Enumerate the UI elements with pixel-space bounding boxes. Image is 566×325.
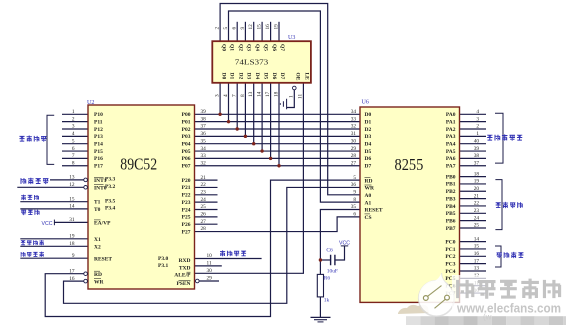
bracket PB status indication [495,180,502,230]
wire node to R6 top [319,260,321,274]
svg-text:D6: D6 [271,73,277,80]
watermark elecfans logo circle [419,281,455,317]
svg-text:D2: D2 [365,127,372,133]
wire TXD pin11 [195,265,222,267]
svg-text:A1: A1 [365,200,372,206]
IC U3 74LS373 body [212,35,311,83]
svg-text:RD: RD [365,178,373,184]
svg-text:R6: R6 [324,276,331,282]
wire INT1 pin13 [50,179,84,181]
svg-text:13: 13 [474,266,480,272]
svg-text:P17: P17 [94,164,103,170]
svg-text:28: 28 [201,226,207,232]
svg-text:PB5: PB5 [446,211,456,217]
svg-text:PC0: PC0 [445,239,455,245]
svg-text:31: 31 [69,217,75,223]
svg-text:38: 38 [201,116,207,122]
svg-text:PC3: PC3 [445,261,455,267]
svg-text:36: 36 [201,131,207,137]
svg-text:14: 14 [257,91,263,97]
svg-text:D5: D5 [365,149,372,155]
bracket PA digit display [495,113,503,163]
89C52 ALE/P pin 30, PSEN pin 29 [174,268,212,287]
svg-text:15: 15 [69,196,75,202]
svg-text:D6: D6 [365,156,372,162]
svg-text:7: 7 [72,153,75,159]
wire T0 pin14 [20,208,88,210]
svg-text:8: 8 [72,160,75,166]
svg-text:D0: D0 [365,112,372,118]
svg-text:Q7: Q7 [279,44,285,51]
wire 8255 RESET pin35 to RC node [320,210,360,261]
IC U6 8255 body [360,100,460,303]
89C52 P0.0-P0.7 pins 39-32 [182,109,207,170]
svg-text:Q4: Q4 [254,44,260,51]
svg-text:5: 5 [353,175,356,181]
svg-text:36: 36 [351,182,357,188]
8255 WR pin 36 [351,182,375,192]
watermark text dianzifashaoyou (elecfans) [458,279,561,299]
74LS373 D0-D7 labels [220,73,309,81]
wire 74LS373 Q4 stub [253,22,255,41]
wire RD: 89C52 pin17 to 8255 RD pin5 [45,180,360,316]
wire PA0-PA7 pins [460,113,487,115]
svg-text:35: 35 [351,204,357,210]
label shumaguan xianshi (digit display) [487,134,522,140]
svg-text:38: 38 [474,153,480,159]
svg-text:TXD: TXD [179,265,191,271]
svg-text:D3: D3 [246,73,252,80]
svg-text:PC2: PC2 [445,254,455,260]
wire P03 bus 89C52 P0.3 to 8255 D3 [195,135,361,137]
svg-text:5: 5 [223,27,229,30]
svg-text:8: 8 [240,94,246,97]
wire P00 bus 89C52 P0.0 to 8255 D0 [195,113,361,115]
wire P2.7 pin28 to 8255 CS pin6 [195,217,361,232]
junction dots latch outputs on P0 bus [218,113,280,168]
svg-text:24: 24 [474,215,480,221]
svg-text:11: 11 [207,261,212,267]
89C52 INT1/INT0 pins 13,12 [69,175,115,192]
wire 74LS373 Q3 stub [244,22,246,41]
svg-text:Q1: Q1 [229,44,235,51]
svg-text:2: 2 [215,27,221,30]
svg-text:U2: U2 [87,100,94,106]
svg-text:21: 21 [201,175,207,181]
wire 74LS373 D3 drop to bus row 3 [244,83,246,137]
svg-text:PA0: PA0 [446,112,456,118]
wire 74LS373 Q6 stub [270,22,272,41]
svg-text:X1: X1 [94,237,101,243]
svg-text:1: 1 [288,95,294,98]
svg-text:20: 20 [474,186,480,192]
svg-text:X2: X2 [94,245,101,251]
bracket PC motor drive [495,246,501,267]
svg-text:P26: P26 [182,222,191,228]
svg-text:RD: RD [94,272,102,278]
svg-text:RXD: RXD [179,258,191,264]
svg-text:P10: P10 [94,112,103,118]
svg-text:P03: P03 [182,134,191,140]
wire 74LS373 D6 drop to bus row 6 [270,83,272,159]
svg-text:18: 18 [69,241,75,247]
svg-text:P02: P02 [182,127,191,133]
label dianji qudong (motor drive) [497,252,524,258]
svg-text:PB3: PB3 [446,196,456,202]
svg-text:P25: P25 [182,215,191,221]
wire 74LS373 Q1 to 8255 A1 [229,11,361,202]
svg-text:21: 21 [474,193,480,199]
89C52 RXD/TXD pins 10,11 [158,253,212,271]
svg-text:25: 25 [201,204,207,210]
svg-text:D1: D1 [365,119,372,125]
wire 74LS373 OE to ground [287,90,294,108]
svg-text:8: 8 [353,197,356,203]
svg-text:3: 3 [476,116,479,122]
74LS373 top pin numbers [215,24,280,30]
wire EA/VP pin31 from VCC [54,221,88,223]
svg-text:23: 23 [474,208,480,214]
89C52 P2.0-P2.7 pins 21-28 [182,175,207,236]
wire P07 bus 89C52 P0.7 to 8255 D7 [195,165,361,167]
svg-text:1k: 1k [324,298,330,304]
8255 PA0-PA7 pins [446,109,480,170]
svg-text:18: 18 [274,91,280,97]
svg-text:P23: P23 [182,200,191,206]
svg-text:18: 18 [474,171,480,177]
svg-text:8255: 8255 [395,155,424,174]
svg-text:13: 13 [69,175,75,181]
svg-text:32: 32 [201,160,207,166]
svg-text:16: 16 [474,251,480,257]
svg-text:P3.0: P3.0 [158,256,168,262]
wire X2 pin18 [20,245,88,247]
wire WR: 89C52 pin16 to 8255 WR pin36 [64,187,361,303]
svg-text:19: 19 [69,234,75,240]
svg-text:14: 14 [474,236,480,242]
svg-text:OE: OE [295,73,301,81]
svg-text:PA1: PA1 [446,119,456,125]
svg-text:P3.3: P3.3 [105,176,115,182]
svg-text:D7: D7 [279,73,285,80]
svg-text:3: 3 [72,124,75,130]
svg-text:23: 23 [201,190,207,196]
svg-text:19: 19 [274,24,280,30]
svg-text:33: 33 [351,116,357,122]
VCC power symbol at EA/VP [42,220,55,227]
label xiaxianwei (lower limit) [21,195,39,200]
89C52 T1/T0 pins 15,14 [69,196,115,213]
8255 CS pin 6 [353,212,371,222]
wire P01 bus 89C52 P0.1 to 8255 D1 [195,121,361,123]
svg-text:24: 24 [201,197,207,203]
wire C6 right plate to VCC stem [335,246,345,260]
svg-text:P22: P22 [182,193,191,199]
svg-text:34: 34 [201,146,207,152]
89C52 pins 1-8 P1.0-P1.7 labels [72,109,103,170]
svg-text:Q5: Q5 [262,44,268,51]
svg-text:2: 2 [476,124,479,130]
svg-text:17: 17 [474,258,480,264]
svg-text:P21: P21 [182,185,191,191]
wire P02 bus 89C52 P0.2 to 8255 D2 [195,128,361,130]
svg-text:PB4: PB4 [446,204,456,210]
svg-text:16: 16 [69,276,75,282]
svg-text:P13: P13 [94,134,103,140]
ground below R6 [311,317,331,322]
watermark cloud puff [398,305,429,314]
logo pad 1 [423,296,428,301]
junction node RC reset [319,258,322,261]
svg-text:LE: LE [304,73,310,81]
svg-text:22: 22 [474,201,480,207]
svg-text:10: 10 [207,253,213,259]
89C52 RESET pin 9 [72,253,113,263]
74LS373 bottom pin numbers [215,91,304,99]
svg-text:D1: D1 [229,73,235,80]
8255 D0-D7 pins 34-27 [351,109,372,170]
svg-text:ALE/P: ALE/P [174,273,191,279]
label zhuangtai zhishi (status indication) [496,202,523,208]
svg-text:PA5: PA5 [446,149,456,155]
svg-text:25: 25 [474,223,480,229]
svg-text:Q3: Q3 [246,44,252,51]
logo pad 2 [445,295,450,300]
svg-text:C6: C6 [326,248,333,254]
svg-text:D4: D4 [254,73,260,80]
svg-text:T1: T1 [94,200,101,206]
wire P1.0-P1.7 input pins 1-8 [62,113,88,115]
svg-text:17: 17 [69,268,75,274]
svg-text:19: 19 [474,179,480,185]
svg-text:P07: P07 [182,164,191,170]
svg-text:EA/VP: EA/VP [94,221,111,227]
svg-text:PB7: PB7 [446,226,456,232]
svg-text:PSEN: PSEN [176,281,190,287]
svg-text:D7: D7 [365,164,372,170]
svg-text:12: 12 [248,24,254,30]
wire 74LS373 D5 drop to bus row 5 [261,83,263,151]
svg-text:D2: D2 [237,73,243,80]
svg-text:Q2: Q2 [237,44,243,51]
watermark text halo [452,275,566,316]
89C52 RD/WR pins 17,16 [69,268,104,285]
svg-text:P04: P04 [182,142,191,148]
svg-text:P14: P14 [94,142,103,148]
74LS373 OE bubble [293,86,297,90]
svg-text:A0: A0 [365,193,372,199]
svg-text:2: 2 [72,116,75,122]
svg-text:11: 11 [298,94,304,99]
svg-text:P3.5: P3.5 [105,198,115,204]
svg-text:27: 27 [201,219,207,225]
8255 PB0-PB7 pins [446,171,480,232]
svg-text:P3.2: P3.2 [105,184,115,190]
svg-text:P12: P12 [94,127,103,133]
svg-text:P15: P15 [94,149,103,155]
wire 74LS373 D7 drop to bus row 7 [278,83,280,166]
svg-text:D0: D0 [220,73,226,80]
svg-text:7: 7 [232,94,238,97]
svg-text:29: 29 [207,276,213,282]
svg-text:P27: P27 [182,229,191,235]
svg-text:U3: U3 [288,35,295,41]
svg-text:Q6: Q6 [271,44,277,51]
svg-text:14: 14 [69,204,75,210]
svg-text:(w: (w [483,313,492,322]
svg-text:P3.4: P3.4 [105,206,115,212]
svg-text:www.elecfans.com: www.elecfans.com [456,302,561,316]
wire 74LS373 D4 drop to bus row 4 [253,83,255,144]
wire RESET pin9 [20,257,88,259]
svg-text:37: 37 [474,160,480,166]
label fuwei xinhao (reset signal) [21,252,44,257]
svg-text:29: 29 [351,146,357,152]
svg-text:6: 6 [353,212,356,218]
wire 74LS373 LE to 89C52 ALE [195,83,304,273]
svg-text:15: 15 [474,244,480,250]
wire 74LS373 Q0 to 8255 A0 [220,4,360,195]
wire PC0-PC7 pins [460,241,487,243]
svg-text:PB0: PB0 [446,174,456,180]
svg-text:13: 13 [248,91,254,97]
label shangxianwei (upper limit) [21,210,39,215]
svg-text:P06: P06 [182,156,191,162]
svg-text:PC1: PC1 [445,247,455,253]
wire node to C6 left plate [320,259,330,261]
wire 74LS373 D2 drop to bus row 2 [236,83,238,129]
svg-text:9: 9 [72,253,75,259]
wire RXD pin10 [195,258,262,260]
capacitor C6 10uF [326,248,337,275]
svg-text:6: 6 [72,146,75,152]
8255 RESET pin 35 [351,204,383,214]
svg-text:PA2: PA2 [446,127,456,133]
svg-text:40: 40 [474,138,480,144]
svg-text:28: 28 [351,153,357,159]
VCC power symbol at C6 [339,241,350,247]
svg-text:4: 4 [223,94,229,97]
svg-text:4: 4 [72,131,75,137]
svg-text:T0: T0 [94,207,101,213]
svg-text:31: 31 [351,131,357,137]
svg-text:33: 33 [201,153,207,159]
svg-text:89C52: 89C52 [120,155,157,174]
8255 A0 pin 9 [353,190,371,200]
wire P2.0-P2.6 stubs pins 21-27 [195,179,218,181]
resistor R6 1k [317,274,330,303]
svg-text:P16: P16 [94,156,103,162]
8255 A1 pin 8 [353,197,371,207]
svg-text:Q0: Q0 [220,44,226,51]
label shizhong xinhao (clock signal) [21,240,44,245]
svg-text:37: 37 [201,124,207,130]
IC U2 89C52 body [87,100,195,289]
svg-text:3: 3 [215,94,221,97]
wire PSEN pin29 stub [200,280,220,282]
label zhuangtai shuru (status input) [19,136,46,142]
wire 74LS373 Q5 stub [261,22,263,41]
svg-text:VCC: VCC [339,241,350,247]
svg-text:22: 22 [201,182,207,188]
svg-text:39: 39 [474,146,480,152]
svg-text:16: 16 [265,24,271,30]
svg-text:VCC: VCC [42,221,53,227]
svg-text:P05: P05 [182,149,191,155]
label cesu xinhao (speed signal) [21,178,48,184]
svg-text:1: 1 [476,131,479,137]
svg-text:27: 27 [351,160,357,166]
svg-text:9: 9 [353,190,356,196]
svg-text:34: 34 [351,109,357,115]
logo trace 2 [435,299,446,308]
74LS373 Q0-Q7 labels [220,44,285,51]
svg-text:D5: D5 [262,73,268,80]
svg-text:PA7: PA7 [446,164,456,170]
svg-text:17: 17 [265,91,271,97]
svg-text:U6: U6 [362,100,369,106]
svg-text:D3: D3 [365,134,372,140]
svg-text:CS: CS [365,215,372,221]
svg-text:35: 35 [201,138,207,144]
ground (sideways) at 74LS373 OE [280,99,286,109]
svg-text:P00: P00 [182,112,191,118]
svg-text:P01: P01 [182,119,191,125]
wire 74LS373 D0 drop to bus row 0 [219,83,221,115]
svg-text:9: 9 [240,27,246,30]
wire P04 bus 89C52 P0.4 to 8255 D4 [195,143,361,145]
89C52 EA/VP pin 31 [69,217,111,227]
svg-text:32: 32 [351,124,357,130]
svg-text:PB1: PB1 [446,182,456,188]
wire P06 bus 89C52 P0.6 to 8255 D6 [195,157,361,159]
bracket status input P1 [47,115,54,164]
wire PB0-PB7 pins [460,176,487,178]
wire X1 pin19 [20,238,88,240]
svg-text:4: 4 [476,109,479,115]
svg-text:WR: WR [94,279,105,285]
svg-text:15: 15 [257,24,263,30]
svg-text:P3.1: P3.1 [158,263,168,269]
svg-text:10uF: 10uF [327,269,338,275]
wire 74LS373 D1 drop to bus row 1 [228,83,230,122]
wire 74LS373 Q2 stub [236,22,238,41]
svg-text:WR: WR [365,186,376,192]
svg-text:26: 26 [201,212,207,218]
logo trace 1 [428,286,442,297]
8255 PC0-PC7 pins [445,236,479,297]
svg-text:PA3: PA3 [446,134,456,140]
svg-text:P24: P24 [182,207,191,213]
svg-text:PB2: PB2 [446,189,456,195]
svg-text:PA6: PA6 [446,156,456,162]
svg-text:1: 1 [72,109,75,115]
wire 74LS373 Q7 stub [278,22,280,41]
wire T1 pin15 [20,201,88,203]
svg-text:P11: P11 [94,119,103,125]
wire R6 bottom to ground [319,297,321,318]
8255 RD pin 5 [353,175,372,185]
svg-text:39: 39 [201,109,207,115]
svg-text:PC4: PC4 [445,269,455,275]
svg-text:5: 5 [72,138,75,144]
watermark film strip [406,316,566,325]
svg-text:74LS373: 74LS373 [235,59,269,67]
svg-text:6: 6 [232,27,238,30]
svg-text:30: 30 [207,268,213,274]
svg-text:RESET: RESET [365,208,383,214]
svg-text:30: 30 [351,138,357,144]
